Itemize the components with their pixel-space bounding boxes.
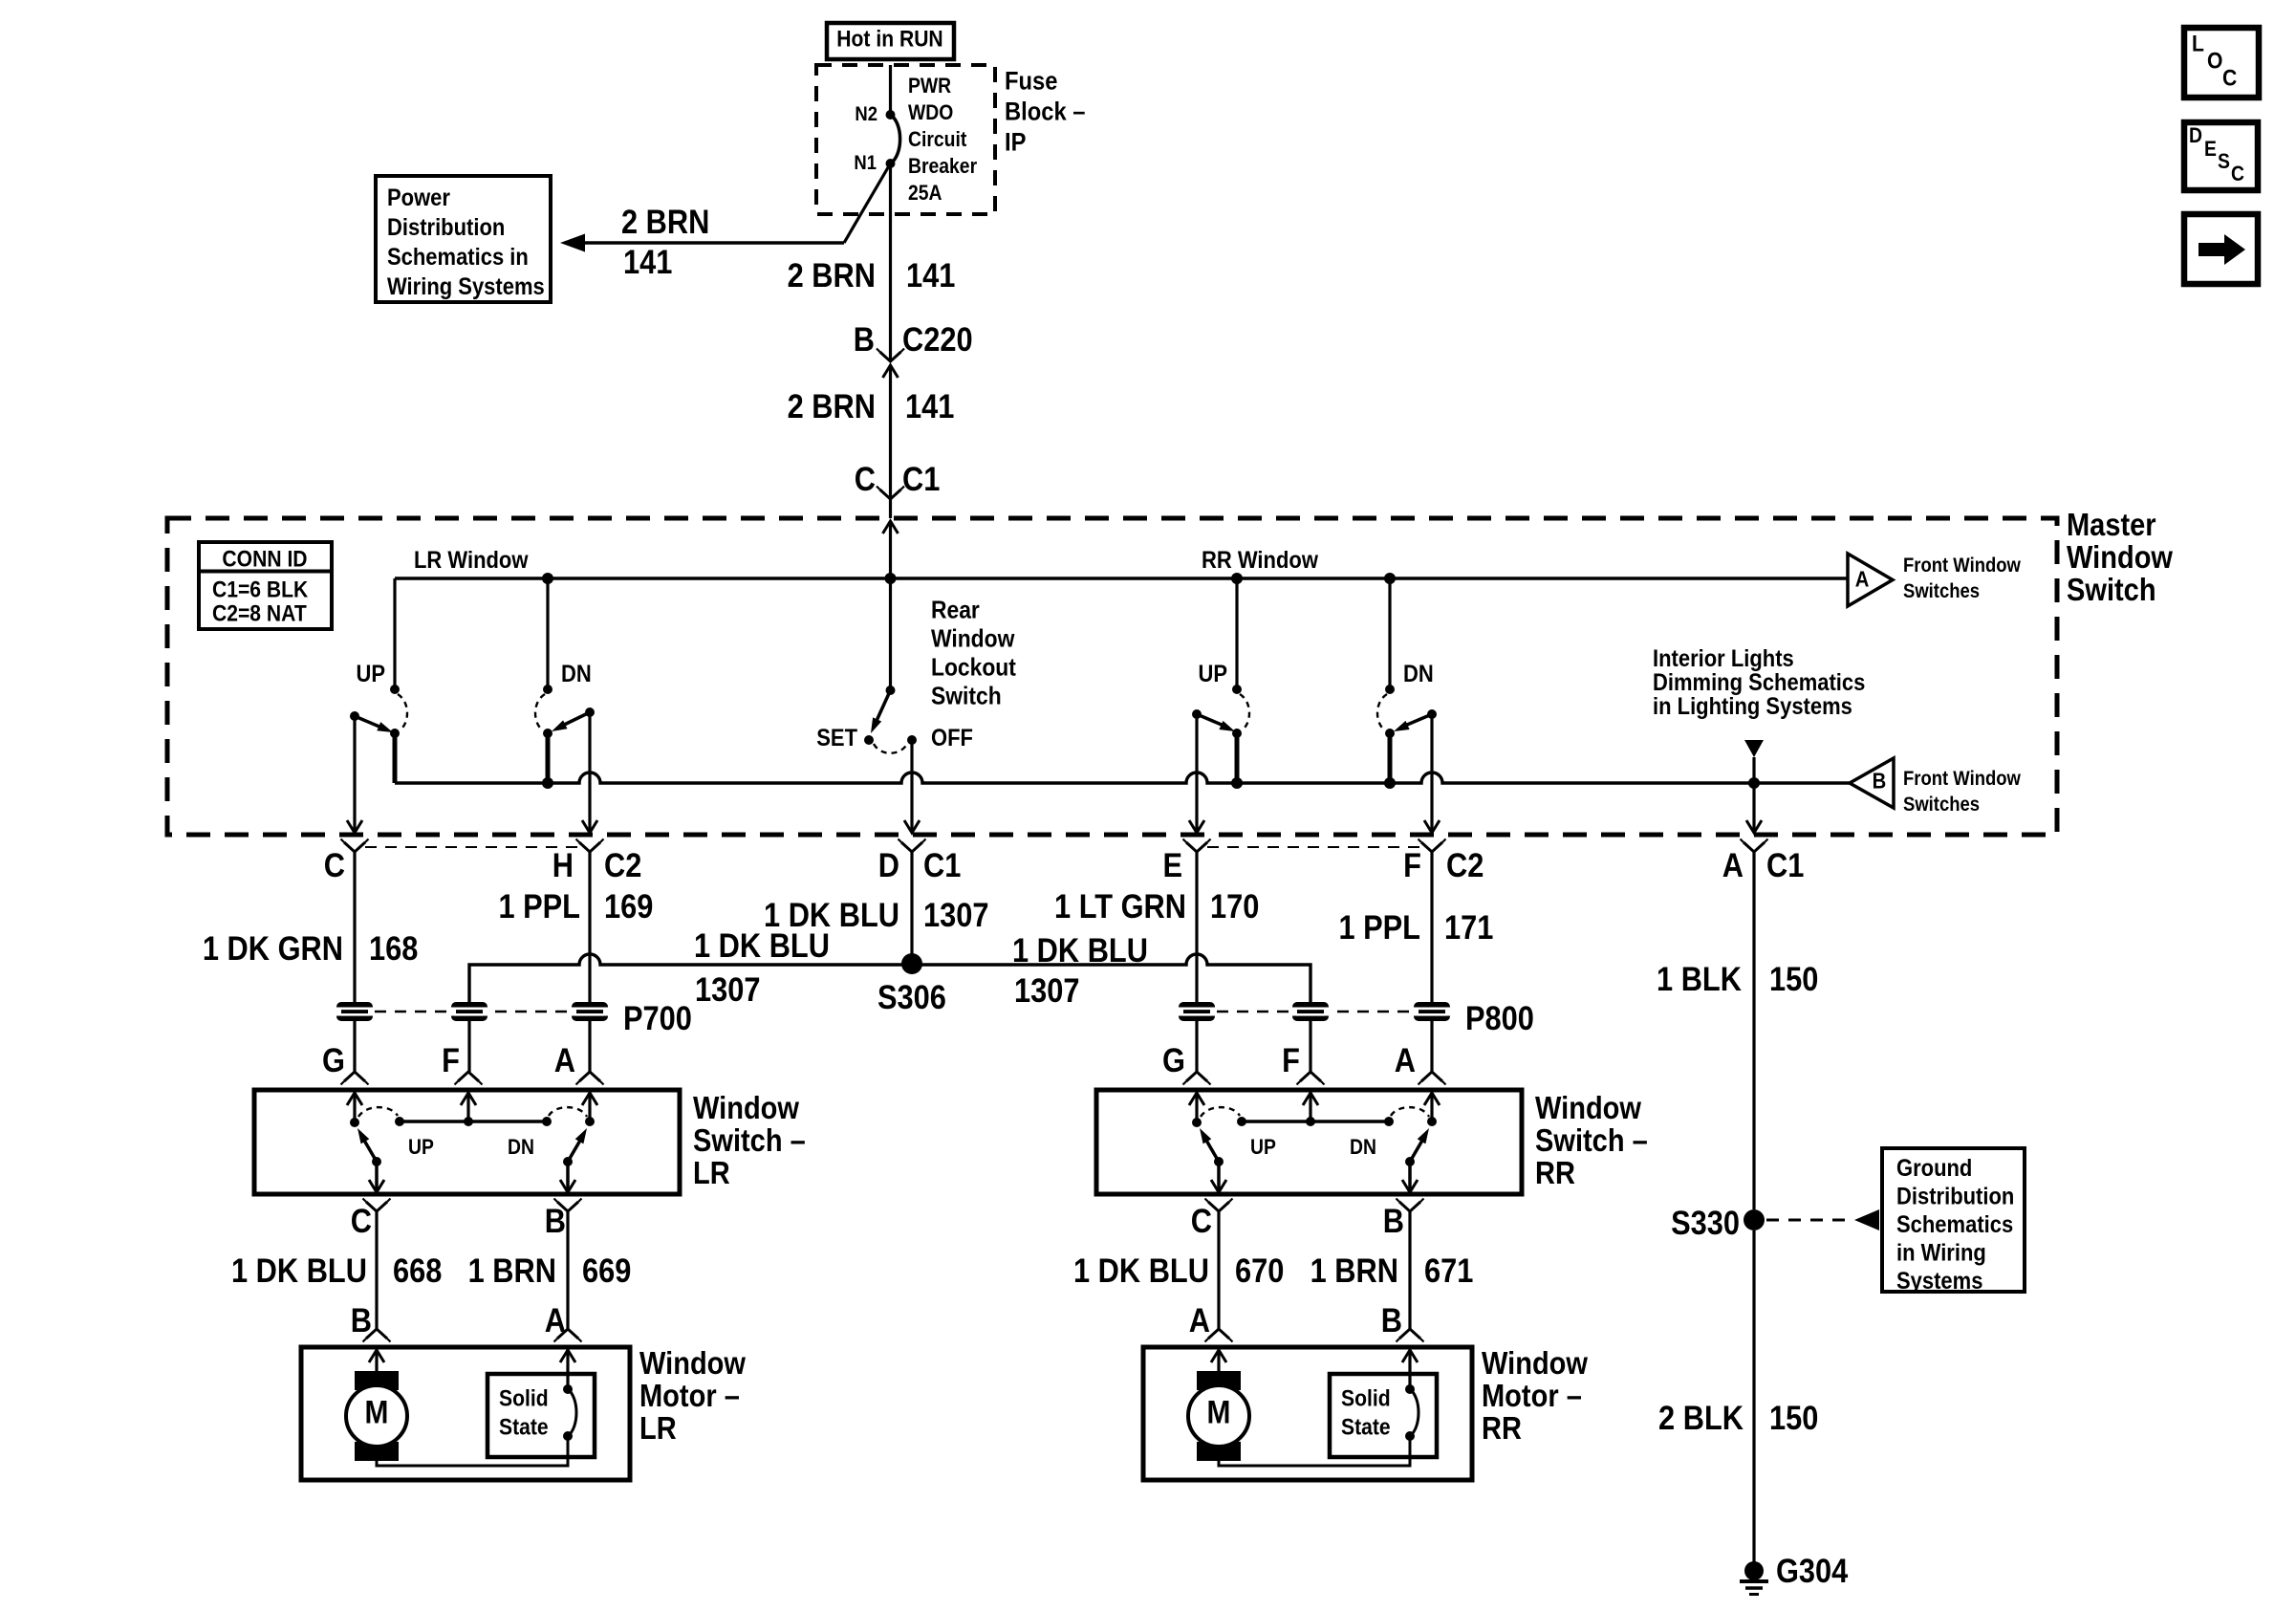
svg-text:Solid: Solid xyxy=(499,1385,549,1411)
circuit breaker CB1 element xyxy=(891,115,900,163)
svg-text:141: 141 xyxy=(905,387,954,425)
switch RR UP travel arc xyxy=(1201,1107,1240,1117)
switch RR G contact xyxy=(1192,1118,1202,1127)
pin E connector fork xyxy=(1186,842,1207,852)
svg-text:RR: RR xyxy=(1482,1410,1522,1446)
triangle connector B to front window switches xyxy=(1850,758,1894,808)
solid state LR upper node xyxy=(563,1384,573,1394)
svg-text:C: C xyxy=(2222,65,2237,91)
fuse block dashed box xyxy=(816,65,995,214)
wire grommet to rear switch pin x371 xyxy=(353,1021,356,1072)
LR DN lower contact xyxy=(543,729,552,738)
pin F connector fork xyxy=(1421,842,1442,852)
switch RR pin A entry arrow xyxy=(1424,1093,1440,1105)
svg-text:Motor –: Motor – xyxy=(1482,1378,1582,1413)
svg-text:2 BRN: 2 BRN xyxy=(788,256,876,294)
solid state LR breaker arc xyxy=(568,1389,576,1436)
pin D connector fork xyxy=(901,842,922,852)
switch RR pin B fork xyxy=(1399,1202,1420,1211)
LR DN travel arc dashed xyxy=(535,694,545,730)
svg-text:141: 141 xyxy=(623,243,672,280)
wire interior lights to bus and pin A xyxy=(1752,757,1755,831)
svg-text:B: B xyxy=(545,1202,566,1239)
solid state RR input wire xyxy=(1408,1350,1411,1389)
svg-text:2 BLK: 2 BLK xyxy=(1658,1399,1744,1436)
svg-text:2 BRN: 2 BRN xyxy=(621,203,709,240)
switch RR pin G entry arrow xyxy=(1189,1093,1204,1105)
svg-text:N2: N2 xyxy=(855,103,877,125)
svg-text:Distribution: Distribution xyxy=(1896,1183,2014,1209)
solid state RR breaker arc xyxy=(1410,1389,1419,1436)
wire RR UP common to pin E xyxy=(1195,714,1198,831)
pin A connector fork xyxy=(1744,842,1765,852)
switch LR pin B exit arrow xyxy=(560,1180,575,1192)
RR DN common contact xyxy=(1427,709,1437,719)
svg-text:Master: Master xyxy=(2067,507,2156,542)
svg-text:C1: C1 xyxy=(1766,846,1804,883)
svg-text:F: F xyxy=(1403,846,1421,883)
window motor RR pin 2 entry arrow xyxy=(1402,1350,1418,1362)
switch LR left pivot xyxy=(372,1157,381,1166)
switch LR left arm xyxy=(363,1139,377,1162)
svg-text:B: B xyxy=(854,320,875,358)
svg-text:Switch –: Switch – xyxy=(1535,1122,1648,1158)
pin H exit arrow xyxy=(582,820,597,833)
svg-text:B: B xyxy=(351,1301,372,1339)
svg-text:Front Window: Front Window xyxy=(1903,555,2021,577)
switch RR left arm xyxy=(1205,1139,1219,1162)
svg-text:C: C xyxy=(2231,163,2244,185)
wire 1 DK BLU 670 xyxy=(1217,1211,1220,1329)
svg-text:C2=8 NAT: C2=8 NAT xyxy=(212,600,307,626)
LR DN common contact xyxy=(585,708,595,717)
svg-text:UP: UP xyxy=(1250,1136,1276,1159)
svg-text:P800: P800 xyxy=(1465,999,1534,1036)
svg-text:1 BRN: 1 BRN xyxy=(468,1252,556,1289)
svg-text:G: G xyxy=(322,1041,345,1078)
svg-text:1 PPL: 1 PPL xyxy=(498,887,580,925)
pin A exit arrow xyxy=(1746,820,1762,833)
svg-text:P700: P700 xyxy=(623,999,692,1036)
svg-text:LR: LR xyxy=(693,1155,730,1190)
switch LR pin C fork xyxy=(366,1202,387,1211)
lockout switch arm xyxy=(876,690,891,723)
pin C exit arrow xyxy=(347,820,362,833)
lockout SET contact xyxy=(864,735,874,745)
svg-text:E: E xyxy=(2204,138,2217,161)
switch LR pin C exit arrow xyxy=(369,1180,384,1192)
svg-text:Circuit: Circuit xyxy=(908,128,966,151)
svg-text:1 DK GRN: 1 DK GRN xyxy=(203,929,343,967)
svg-text:O: O xyxy=(2207,48,2222,74)
solid state LR input wire xyxy=(566,1350,569,1389)
svg-text:Ground: Ground xyxy=(1896,1155,1972,1182)
svg-text:C2: C2 xyxy=(604,846,641,883)
P700 grommet C wire xyxy=(336,1002,373,1021)
svg-text:Switches: Switches xyxy=(1903,580,1980,602)
svg-text:671: 671 xyxy=(1424,1252,1473,1289)
wire LR DN branch xyxy=(546,578,549,689)
RR DN lower contact xyxy=(1385,729,1395,738)
window motor LR pin 1 fork xyxy=(366,1329,387,1339)
switch RR right arm xyxy=(1410,1139,1423,1162)
switch RR pin C exit arrow xyxy=(1211,1180,1226,1192)
svg-text:Systems: Systems xyxy=(1896,1268,1982,1295)
svg-text:State: State xyxy=(1341,1414,1391,1440)
svg-text:UP: UP xyxy=(356,661,385,687)
junction dot center feed xyxy=(885,573,897,584)
svg-text:N1: N1 xyxy=(854,152,877,174)
switch LR UP travel arc xyxy=(358,1107,398,1117)
switch RR pin A fork xyxy=(1421,1072,1442,1081)
LR UP travel arc dashed xyxy=(398,694,407,730)
svg-text:PWR: PWR xyxy=(908,75,951,98)
pass-through connector P800 dashed link xyxy=(1197,1011,1432,1012)
motor RR M1 body xyxy=(1188,1385,1249,1447)
splice S306 xyxy=(901,953,922,974)
svg-text:UP: UP xyxy=(1198,661,1227,687)
svg-text:1307: 1307 xyxy=(695,970,760,1008)
switch LR G contact xyxy=(350,1118,359,1127)
svg-text:Window: Window xyxy=(1482,1345,1589,1381)
wire 2 BRN 141 from breaker down xyxy=(889,163,892,361)
wire 1 DK BLU 1307 left branch xyxy=(469,954,912,1002)
P700 grommet F wire xyxy=(451,1002,487,1021)
switch RR pin G fork xyxy=(1186,1072,1207,1081)
P800 grommet G wire xyxy=(1179,1002,1215,1021)
wire to power distribution with arrow xyxy=(579,241,844,245)
RR UP lower contact xyxy=(1232,729,1242,738)
window switch LR box xyxy=(254,1090,680,1194)
svg-text:DN: DN xyxy=(561,661,592,687)
svg-text:1 DK BLU: 1 DK BLU xyxy=(694,926,830,964)
window motor LR pin 1 entry arrow xyxy=(369,1350,384,1362)
window motor LR box xyxy=(301,1347,630,1480)
svg-text:Hot in RUN: Hot in RUN xyxy=(836,26,942,52)
wire RR DN lower contact to bus xyxy=(1388,733,1393,783)
LR DN switch arm xyxy=(558,712,590,728)
switch RR F wire xyxy=(1309,1093,1311,1121)
wire OFF to pin D xyxy=(910,740,913,831)
connector C2 dashed link left xyxy=(365,846,579,848)
pass-through connector P700 dashed link xyxy=(355,1011,590,1012)
svg-text:168: 168 xyxy=(369,929,418,967)
pin H connector fork xyxy=(579,842,600,852)
svg-text:OFF: OFF xyxy=(931,725,973,751)
svg-text:1 DK BLU: 1 DK BLU xyxy=(231,1252,367,1289)
switch RR common bar xyxy=(1242,1120,1389,1123)
node N1 xyxy=(886,159,896,168)
switch LR pin B fork xyxy=(557,1202,578,1211)
svg-text:1307: 1307 xyxy=(923,896,988,933)
svg-text:F: F xyxy=(442,1041,460,1078)
svg-text:S330: S330 xyxy=(1671,1204,1740,1241)
svg-text:Schematics: Schematics xyxy=(1896,1211,2013,1238)
svg-text:C: C xyxy=(855,460,876,497)
svg-text:670: 670 xyxy=(1235,1252,1284,1289)
svg-text:1 DK BLU: 1 DK BLU xyxy=(1073,1252,1209,1289)
legend box arrow xyxy=(2184,214,2258,284)
wire 1 PPL 169 xyxy=(588,852,591,1002)
switch RR pin F fork xyxy=(1300,1072,1321,1081)
wire C1 feed inside master switch xyxy=(889,521,892,690)
svg-text:169: 169 xyxy=(604,887,653,925)
svg-text:Motor –: Motor – xyxy=(639,1378,740,1413)
switch LR F wire xyxy=(466,1093,469,1121)
svg-text:C: C xyxy=(1191,1202,1212,1239)
svg-text:B: B xyxy=(1381,1301,1402,1339)
svg-text:IP: IP xyxy=(1005,128,1026,157)
svg-text:C: C xyxy=(351,1202,372,1239)
svg-text:UP: UP xyxy=(408,1136,434,1159)
svg-text:LR: LR xyxy=(639,1410,677,1446)
svg-text:in Lighting Systems: in Lighting Systems xyxy=(1653,693,1852,720)
svg-text:E: E xyxy=(1162,846,1182,883)
wire LR UP branch xyxy=(393,578,396,689)
window motor RR pin 2 fork xyxy=(1399,1329,1420,1339)
svg-text:RR: RR xyxy=(1535,1155,1575,1190)
legend box LOC xyxy=(2184,28,2259,98)
switch RR G wire xyxy=(1195,1093,1198,1122)
solid state RR upper node xyxy=(1405,1384,1415,1394)
svg-text:DN: DN xyxy=(508,1136,534,1159)
ground G304 xyxy=(1744,1561,1764,1580)
svg-text:C1: C1 xyxy=(923,846,961,883)
svg-text:C1: C1 xyxy=(902,460,940,497)
wire LR UP lower contact to bus xyxy=(393,733,398,783)
switch RR pin B wire xyxy=(1408,1162,1412,1192)
svg-text:G304: G304 xyxy=(1776,1552,1849,1589)
connector C2 dashed link right xyxy=(1207,846,1421,848)
pin E exit arrow xyxy=(1189,820,1204,833)
switch RR DN travel arc xyxy=(1391,1107,1429,1117)
junction dot RR DN xyxy=(1384,573,1396,584)
switch LR right arm xyxy=(568,1139,581,1162)
wire 1 BRN 671 xyxy=(1408,1211,1411,1329)
svg-text:Power: Power xyxy=(387,185,450,211)
svg-text:CONN ID: CONN ID xyxy=(222,546,307,572)
svg-text:1 BLK: 1 BLK xyxy=(1657,960,1742,997)
svg-text:Window: Window xyxy=(1535,1090,1642,1125)
junction dot RR DN on bus xyxy=(1384,777,1396,789)
motor LR bottom wire xyxy=(377,1437,568,1466)
switch LR pin G entry arrow xyxy=(347,1093,362,1105)
svg-text:A: A xyxy=(1855,566,1870,592)
RR DN travel arc dashed xyxy=(1377,694,1387,730)
svg-text:1 LT GRN: 1 LT GRN xyxy=(1054,887,1186,925)
window motor RR pin 1 entry arrow xyxy=(1211,1350,1226,1362)
junction dot LR DN on bus xyxy=(542,777,553,789)
power distribution reference box xyxy=(376,176,551,302)
power source label box Hot in RUN xyxy=(827,23,954,59)
svg-text:H: H xyxy=(552,846,574,883)
svg-text:D: D xyxy=(2189,124,2202,147)
switch LR pin G fork xyxy=(344,1072,365,1081)
svg-text:Rear: Rear xyxy=(931,597,980,624)
svg-text:25A: 25A xyxy=(908,182,942,205)
LR UP lower contact xyxy=(390,729,400,738)
switch LR pin C wire xyxy=(375,1162,379,1192)
solid state LR lower node xyxy=(563,1431,573,1441)
window motor LR pin1 wire xyxy=(375,1350,378,1373)
svg-text:G: G xyxy=(1162,1041,1185,1078)
svg-text:Window: Window xyxy=(693,1090,800,1125)
svg-text:D: D xyxy=(878,846,899,883)
P800 grommet F wire xyxy=(1292,1002,1329,1021)
svg-text:Solid: Solid xyxy=(1341,1385,1391,1411)
switch LR common bar xyxy=(400,1120,547,1123)
junction dot RR UP on bus xyxy=(1231,777,1243,789)
switch RR pin B exit arrow xyxy=(1402,1180,1418,1192)
switch RR A wire xyxy=(1430,1093,1433,1121)
wire grommet to rear switch pin x617 xyxy=(588,1021,591,1072)
svg-text:C: C xyxy=(324,846,345,883)
switch LR DN travel arc xyxy=(549,1107,587,1117)
solid state box RR xyxy=(1330,1374,1437,1457)
legend box DESC xyxy=(2184,122,2258,190)
switch RR A contact xyxy=(1427,1117,1437,1126)
wire 1 DK BLU 668 xyxy=(375,1211,378,1329)
svg-text:C220: C220 xyxy=(902,320,973,358)
svg-text:1 DK BLU: 1 DK BLU xyxy=(1012,931,1148,969)
splice S330 xyxy=(1744,1209,1765,1230)
RR DN switch arm xyxy=(1400,714,1432,728)
wire from Hot in RUN into fuse block xyxy=(889,65,892,115)
RR UP common contact xyxy=(1192,709,1202,719)
svg-text:150: 150 xyxy=(1769,1399,1818,1436)
wire grommet to rear switch pin x1498 xyxy=(1430,1021,1433,1072)
connector C1 fork at master switch xyxy=(880,490,901,499)
svg-text:S306: S306 xyxy=(877,978,946,1015)
svg-text:DN: DN xyxy=(1403,661,1434,687)
svg-text:1307: 1307 xyxy=(1014,971,1079,1009)
switch RR pin C fork xyxy=(1208,1202,1229,1211)
svg-text:Switch: Switch xyxy=(931,683,1002,710)
LR DN upper contact xyxy=(543,685,552,694)
pin C1-C entry arrow into master switch xyxy=(883,521,899,533)
switch RR right pivot xyxy=(1405,1157,1415,1166)
CONN ID table box xyxy=(199,542,332,629)
svg-text:Block –: Block – xyxy=(1005,98,1085,126)
wire 1 LT GRN 170 xyxy=(1195,852,1198,1002)
junction dot interior lights on bus xyxy=(1748,777,1760,789)
svg-text:Switch –: Switch – xyxy=(693,1122,806,1158)
svg-text:A: A xyxy=(554,1041,575,1078)
wire 1 PPL 171 xyxy=(1430,852,1433,1002)
svg-text:B: B xyxy=(1873,768,1887,794)
svg-text:141: 141 xyxy=(906,256,955,294)
wire RR DN common to pin F xyxy=(1430,714,1433,831)
pin F exit arrow xyxy=(1424,820,1440,833)
switch RR pin F entry arrow xyxy=(1303,1093,1318,1105)
motor RR M1 brush caps xyxy=(1197,1371,1241,1390)
wire D to splice S306 xyxy=(910,852,913,964)
motor LR M1 body xyxy=(346,1385,407,1447)
window motor LR pin 2 entry arrow xyxy=(560,1350,575,1362)
wire 2 BLK 150 S330 to G304 xyxy=(1752,1230,1755,1564)
svg-text:171: 171 xyxy=(1444,908,1493,946)
bottom common bus wire with hops xyxy=(395,773,1850,783)
svg-text:M: M xyxy=(365,1394,389,1430)
wire LR DN common to pin H xyxy=(588,712,591,831)
switch LR pin F entry arrow xyxy=(461,1093,476,1105)
junction dot RR UP xyxy=(1231,573,1243,584)
switch LR pin A fork xyxy=(579,1072,600,1081)
pin D exit arrow xyxy=(904,820,920,833)
in-line connector C220 xyxy=(880,352,901,361)
switch LR G wire xyxy=(353,1093,356,1122)
LR UP upper contact xyxy=(390,685,400,694)
wire grommet to rear switch pin x1252 xyxy=(1195,1021,1198,1072)
svg-text:WDO: WDO xyxy=(908,101,953,124)
RR UP switch arm xyxy=(1197,714,1228,728)
svg-text:State: State xyxy=(499,1414,549,1440)
switch LR pin B wire xyxy=(566,1162,570,1192)
svg-text:A: A xyxy=(1189,1301,1210,1339)
wire LR DN lower contact to bus xyxy=(546,733,551,783)
interior lights source triangle xyxy=(1744,740,1764,757)
svg-text:170: 170 xyxy=(1210,887,1259,925)
switch LR pin F fork xyxy=(458,1072,479,1081)
solid state box LR xyxy=(487,1374,595,1457)
wire LR UP common to pin C xyxy=(353,716,356,831)
svg-text:Interior Lights: Interior Lights xyxy=(1653,645,1794,672)
window switch RR box xyxy=(1096,1090,1522,1194)
window motor RR box xyxy=(1143,1347,1472,1480)
svg-text:in Wiring: in Wiring xyxy=(1896,1239,1986,1266)
switch LR pin A entry arrow xyxy=(582,1093,597,1105)
svg-text:SET: SET xyxy=(816,725,857,751)
svg-text:C1=6 BLK: C1=6 BLK xyxy=(212,577,309,602)
svg-text:Window: Window xyxy=(2067,539,2174,575)
switch RR left pivot xyxy=(1214,1157,1224,1166)
motor LR M1 brush caps xyxy=(355,1371,399,1390)
P700 grommet A wire xyxy=(572,1002,608,1021)
pin C connector fork xyxy=(344,842,365,852)
lockout upper contact xyxy=(886,686,896,695)
switch LR A wire xyxy=(588,1093,591,1121)
ground distribution reference box xyxy=(1882,1148,2025,1292)
svg-text:Wiring Systems: Wiring Systems xyxy=(387,273,545,300)
wire grommet to rear switch pin x1371 xyxy=(1309,1021,1311,1072)
svg-text:LR Window: LR Window xyxy=(414,547,529,574)
top feed bus wire xyxy=(395,577,1848,580)
svg-text:Lockout: Lockout xyxy=(931,654,1016,682)
svg-text:Breaker: Breaker xyxy=(908,155,977,178)
svg-text:Dimming Schematics: Dimming Schematics xyxy=(1653,669,1865,696)
svg-text:Switch: Switch xyxy=(2067,572,2156,607)
svg-text:B: B xyxy=(1383,1202,1404,1239)
window motor LR pin 2 fork xyxy=(557,1329,578,1339)
switch LR A contact xyxy=(585,1117,595,1126)
svg-text:F: F xyxy=(1282,1041,1300,1078)
svg-text:RR Window: RR Window xyxy=(1202,547,1319,574)
svg-text:1 PPL: 1 PPL xyxy=(1338,908,1420,946)
window motor RR pin1 wire xyxy=(1217,1350,1220,1373)
RR DN upper contact xyxy=(1385,685,1395,694)
svg-text:C2: C2 xyxy=(1446,846,1484,883)
dashed reference wire from S330 xyxy=(1766,1219,1851,1222)
LR UP common contact xyxy=(350,711,359,721)
svg-text:Window: Window xyxy=(639,1345,747,1381)
svg-text:150: 150 xyxy=(1769,960,1818,997)
svg-text:M: M xyxy=(1207,1394,1231,1430)
svg-text:DN: DN xyxy=(1350,1136,1376,1159)
wire RR UP branch xyxy=(1235,578,1238,689)
lockout travel arc dashed xyxy=(874,744,907,753)
svg-text:Distribution: Distribution xyxy=(387,214,505,241)
svg-text:2 BRN: 2 BRN xyxy=(788,387,876,425)
